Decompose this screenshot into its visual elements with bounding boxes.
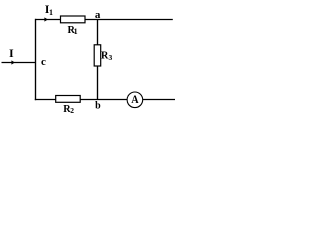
svg-text:1: 1 bbox=[49, 8, 53, 17]
arrowhead I on left lead bbox=[11, 60, 15, 64]
svg-text:A: A bbox=[131, 93, 138, 106]
svg-text:3: 3 bbox=[109, 53, 113, 62]
svg-text:1: 1 bbox=[74, 27, 78, 36]
wire node a to R3 bbox=[97, 20, 99, 46]
resistor R1 bbox=[61, 16, 86, 23]
wire current I lead bbox=[2, 62, 36, 64]
ammeter A bbox=[127, 92, 143, 108]
svg-text:2: 2 bbox=[70, 106, 74, 115]
resistor R2 bbox=[56, 96, 80, 103]
svg-text:c: c bbox=[41, 56, 46, 68]
wire bottom left bbox=[35, 99, 128, 101]
wire R3 to node b bbox=[97, 66, 99, 100]
svg-text:I: I bbox=[9, 46, 14, 60]
resistor R3 bbox=[94, 45, 101, 66]
svg-text:b: b bbox=[95, 100, 101, 111]
arrowhead I1 on top wire bbox=[44, 17, 48, 21]
wire bottom right bbox=[143, 99, 175, 101]
svg-text:a: a bbox=[95, 9, 101, 21]
wire left bbox=[35, 19, 37, 100]
wire top bbox=[36, 19, 173, 21]
